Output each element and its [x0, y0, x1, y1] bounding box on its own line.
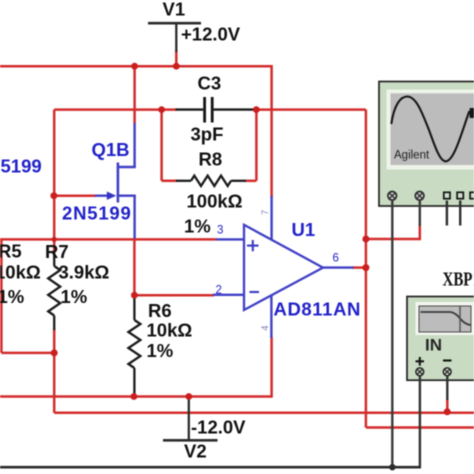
svg-text:10kΩ: 10kΩ — [0, 262, 41, 283]
wire XBP minus red part — [446, 399, 449, 412]
bode plotter response curve — [421, 312, 471, 325]
svg-text:R6: R6 — [148, 300, 172, 321]
oscilloscope screen — [391, 93, 474, 165]
svg-text:R5: R5 — [0, 241, 22, 262]
resistor R7 — [48, 254, 60, 330]
wire scope channel 2 dark part — [419, 200, 421, 226]
wire C3 right to feedback drop — [256, 108, 366, 111]
node rail-drain junction — [131, 63, 138, 70]
svg-text:C3: C3 — [198, 73, 222, 94]
voltage source V2 -12V — [163, 397, 218, 441]
node rail-V1 junction — [173, 63, 180, 70]
svg-text:XBP1: XBP1 — [443, 268, 474, 291]
resistor R8 — [176, 176, 246, 186]
svg-text:1%: 1% — [147, 340, 174, 361]
wire rail up to op-amp pin 4 — [270, 337, 273, 398]
wire scope stub 2 — [459, 201, 461, 226]
wire output bottom rail — [366, 426, 474, 429]
wire Q1B gate red part — [54, 194, 96, 197]
svg-text:3.9kΩ: 3.9kΩ — [59, 262, 110, 283]
svg-text:IN: IN — [425, 336, 442, 355]
node R6 bottom rail junction — [131, 393, 138, 400]
wire scope stub 1 — [446, 201, 448, 226]
wire +12V top rail — [0, 65, 272, 68]
wire XBP plus down — [419, 376, 421, 468]
wire node A horizontal to C3 left — [54, 108, 176, 111]
wire R7 bottom down to XBP rail — [53, 329, 56, 413]
svg-text:1%: 1% — [184, 216, 211, 237]
svg-text:V2: V2 — [184, 441, 207, 462]
svg-text:6: 6 — [333, 253, 339, 265]
svg-text:4: 4 — [260, 326, 271, 331]
wire scope channel 1 down — [391, 200, 393, 467]
oscilloscope waveform edge marker — [470, 108, 474, 118]
wire source node down to R6 — [133, 239, 136, 296]
wire V1 stem lower part — [175, 51, 178, 67]
wire pin 2 horizontal red part — [134, 294, 214, 297]
oscilloscope screen bezel — [387, 90, 474, 170]
node pin3 R7 crossing junction — [52, 237, 57, 242]
node C3 left junction — [158, 106, 165, 113]
wire output vertical long — [365, 110, 368, 428]
oscilloscope terminal 1 — [388, 192, 397, 201]
wire scope channel 2 red part — [419, 225, 422, 240]
svg-text:3: 3 — [217, 225, 223, 237]
oscilloscope connector square 3 — [470, 192, 474, 198]
oscilloscope sine waveform — [391, 96, 469, 161]
wire R8 right stub — [245, 180, 256, 183]
voltage source V1 +12V — [148, 23, 201, 52]
svg-text:2N5199: 2N5199 — [62, 203, 132, 224]
svg-text:+12.0V: +12.0V — [181, 24, 241, 45]
svg-text:U1: U1 — [292, 219, 316, 240]
node R7 bottom junction — [51, 349, 58, 356]
bode plotter cursor — [459, 306, 461, 332]
svg-text:5199: 5199 — [1, 156, 42, 177]
svg-text:R8: R8 — [199, 149, 223, 170]
svg-text:Q1B: Q1B — [92, 139, 130, 160]
wire rail to Q1B drain — [133, 66, 136, 124]
oscilloscope connector square 2 — [457, 192, 463, 198]
capacitor C3 — [176, 97, 256, 123]
oscilloscope connector square 1 — [444, 192, 450, 198]
wire black ground return bottom — [0, 466, 421, 469]
svg-text:1%: 1% — [61, 286, 88, 307]
node scope channel 1 bottom junction — [389, 464, 395, 470]
svg-text:7: 7 — [260, 210, 271, 215]
label minus — [443, 359, 452, 361]
wire C3 to R8 right link — [255, 110, 258, 181]
wire R5 bottom to R7 bottom — [1, 352, 54, 355]
XBP terminal plus — [416, 368, 424, 376]
wire node A vertical to R7 top — [53, 110, 56, 256]
svg-text:AD811AN: AD811AN — [274, 299, 362, 320]
XBP terminal minus — [443, 368, 451, 376]
wire left edge vertical to R5 — [0, 239, 3, 353]
svg-text:-12.0V: -12.0V — [191, 417, 246, 438]
svg-text:2: 2 — [216, 285, 222, 297]
label plus — [416, 357, 425, 366]
svg-text:R7: R7 — [45, 241, 69, 262]
oscilloscope XSC1 Agilent body — [379, 82, 474, 207]
node output junction — [362, 264, 369, 271]
bode plotter screen — [419, 306, 471, 332]
svg-text:1%: 1% — [0, 286, 24, 307]
wire op-amp output red part — [352, 266, 366, 269]
wire C3 to R8 left link — [160, 110, 163, 181]
node output-scope junction — [362, 236, 369, 243]
wire XBP minus rail — [54, 411, 474, 414]
node V2 rail junction — [185, 393, 192, 400]
wire V+ rail drop to op-amp pin 7 — [270, 65, 273, 197]
node gate junction — [50, 192, 57, 199]
node C3 right junction — [253, 106, 260, 113]
svg-text:Agilent: Agilent — [394, 150, 430, 162]
svg-text:100kΩ: 100kΩ — [187, 191, 243, 212]
op-amp U1 — [213, 196, 361, 338]
wire pin 3 horizontal — [0, 238, 217, 241]
node XBP minus rail junction — [444, 408, 451, 415]
wire output to scope channel — [366, 238, 420, 241]
bode plotter screen bezel — [416, 302, 474, 335]
oscilloscope terminal 2 — [415, 192, 424, 201]
node R6 top junction — [131, 292, 138, 299]
svg-text:V1: V1 — [163, 0, 186, 20]
svg-text:10kΩ: 10kΩ — [147, 320, 193, 341]
bode plotter XBP1 body — [407, 297, 474, 381]
svg-text:3pF: 3pF — [191, 124, 224, 145]
wire R8 left stub — [162, 180, 177, 183]
resistor R6 — [128, 296, 140, 395]
wire XBP minus dark part — [446, 376, 448, 400]
transistor Q1B JFET — [95, 123, 136, 239]
wire -12V bottom rail — [0, 395, 272, 398]
